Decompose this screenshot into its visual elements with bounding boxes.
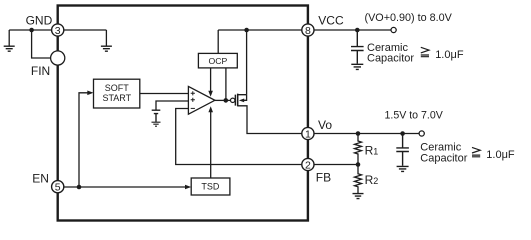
svg-text:FIN: FIN — [31, 64, 50, 78]
svg-text:START: START — [102, 93, 131, 103]
svg-text:(VO+0.90) to 8.0V: (VO+0.90) to 8.0V — [365, 12, 453, 24]
svg-text:EN: EN — [32, 172, 49, 186]
ground (below C1) — [351, 64, 363, 69]
transistor Q1 source lead to VCC — [238, 30, 247, 95]
pin FIN — [51, 51, 65, 65]
svg-text:OCP: OCP — [208, 56, 227, 66]
comparator input polarity marks — [191, 91, 195, 108]
svg-text:1: 1 — [305, 128, 311, 140]
ground (below C2) — [397, 166, 409, 171]
op-amp U2 (error comparator) — [188, 86, 215, 114]
transistor Q1 gate and channel bars — [235, 94, 237, 107]
svg-text:Capacitor: Capacitor — [367, 53, 414, 65]
symbol >= (VCC capacitor) — [421, 47, 429, 56]
IC block outline U1 — [58, 6, 308, 221]
node output junction — [224, 98, 229, 103]
node A junction on GND wire — [29, 28, 34, 33]
wire VCC external — [313, 29, 391, 31]
transistor Q1 PMOS gate bubble — [231, 98, 235, 102]
svg-text:GND: GND — [26, 14, 53, 28]
symbol >= (Vo capacitor) — [472, 147, 480, 156]
svg-text:1.5V to 7.0V: 1.5V to 7.0V — [385, 110, 444, 122]
wire SOFT START to comparator +1 — [140, 93, 189, 95]
node Vo junction (C2 tap) — [400, 131, 405, 136]
svg-text:VCC: VCC — [318, 14, 344, 28]
block SOFT START — [94, 79, 140, 108]
wire FB external — [313, 164, 358, 166]
wire TSD to comparator bottom (arrow) — [210, 112, 212, 178]
pin 1 Vo — [302, 127, 314, 139]
svg-text:1.0μF: 1.0μF — [486, 149, 515, 161]
pin 8 VCC — [302, 24, 314, 36]
wire Vref to comparator +2 — [156, 101, 189, 110]
svg-text:5: 5 — [55, 182, 61, 194]
arrowhead OCP to comparator — [208, 91, 213, 97]
ground (below R2) — [353, 194, 364, 199]
svg-text:8: 8 — [305, 25, 311, 37]
svg-text:TSD: TSD — [201, 182, 220, 192]
svg-text:3: 3 — [55, 25, 61, 37]
node Vo junction (R1 tap) — [356, 131, 361, 136]
node VCC junction — [355, 28, 360, 33]
arrowhead into TSD — [185, 185, 191, 190]
wire GND external (pin3 to left terminal) — [9, 29, 52, 31]
capacitor C2 ceramic on Vo — [396, 134, 409, 166]
block TSD — [191, 178, 230, 195]
wire OCP to output node — [225, 68, 227, 101]
transistor Q1 bulk connection — [243, 95, 247, 101]
wire feedback FB to comparator minus — [176, 109, 303, 165]
wire GND internal — [63, 29, 107, 31]
terminal VCC (open circle) — [391, 27, 396, 32]
node FB junction (R1/R2) — [356, 162, 361, 167]
wire EN internal — [63, 186, 186, 188]
arrowhead into SOFT START — [87, 91, 93, 96]
transistor Q1 drain lead to Vo — [238, 106, 303, 134]
svg-text:FB: FB — [316, 171, 331, 185]
svg-text:R1: R1 — [365, 144, 379, 158]
svg-text:Capacitor: Capacitor — [420, 153, 467, 165]
arrowhead TSD to comparator — [208, 106, 213, 112]
pin 2 FB — [302, 158, 314, 170]
terminal Vo (open circle) — [419, 131, 424, 136]
svg-text:SOFT: SOFT — [105, 83, 130, 93]
pin 3 GND — [52, 24, 64, 36]
wire comparator output — [215, 99, 231, 101]
svg-text:2: 2 — [305, 159, 311, 171]
svg-text:Vo: Vo — [318, 118, 332, 132]
block OCP — [198, 53, 237, 68]
resistor R2 — [355, 165, 362, 194]
ground (below Vref) — [152, 122, 161, 126]
svg-text:R2: R2 — [365, 173, 379, 187]
wire Vo external — [313, 133, 419, 135]
node VCC/source junction — [244, 28, 249, 33]
wire EN to SOFT START — [79, 93, 88, 187]
resistor R1 — [355, 134, 362, 165]
node EN junction — [77, 185, 82, 190]
capacitor C1 ceramic on VCC — [351, 30, 364, 64]
ground (internal, right of pin 3) — [101, 30, 112, 51]
pin 5 EN — [52, 181, 64, 193]
ground (external left) — [4, 30, 15, 51]
wire GND junction to FIN — [32, 30, 51, 58]
svg-text:1.0μF: 1.0μF — [435, 49, 464, 61]
wire VCC internal (pin8 to OCP, node over MOSFET source) — [218, 30, 303, 53]
wire OCP to comparator top (arrow) — [210, 68, 212, 92]
arrowhead Q1 bulk — [239, 99, 244, 103]
battery Vref — [152, 110, 161, 122]
